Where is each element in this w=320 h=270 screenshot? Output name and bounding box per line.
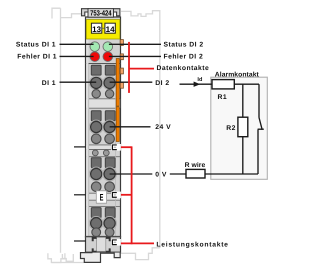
E marker box bbox=[96, 191, 106, 203]
data contact tab 3 bbox=[120, 68, 123, 74]
level 4 actuation squares bbox=[91, 208, 101, 218]
resistor R1 bbox=[212, 80, 234, 89]
data contact tab 2 bbox=[120, 54, 123, 60]
level 2 actuation squares bbox=[91, 111, 101, 121]
svg-text:Status DI 1: Status DI 1 bbox=[16, 42, 56, 49]
foot right hook bbox=[114, 253, 120, 258]
background silhouette: bottom-left foot 2 bbox=[62, 254, 73, 261]
wire 24V bbox=[110, 126, 151, 128]
orange strip divider mark bbox=[116, 105, 120, 107]
svg-text:13: 13 bbox=[92, 25, 101, 34]
switch bottom wire bbox=[257, 130, 259, 175]
wire 0V to R wire bbox=[170, 173, 186, 175]
wire fehler DI2 bbox=[109, 55, 161, 57]
wire R2 bottom bbox=[242, 137, 244, 174]
level 3 clamp circles bbox=[89, 167, 103, 181]
svg-text:Datenkontakte: Datenkontakte bbox=[157, 65, 210, 72]
wire 0V bbox=[110, 173, 153, 175]
red bracket datenkontakte bbox=[128, 42, 130, 93]
svg-text:E: E bbox=[100, 193, 104, 204]
switch contact tick bbox=[258, 128, 264, 130]
terminal number box 14 bbox=[105, 23, 115, 33]
svg-text:Status DI 2: Status DI 2 bbox=[164, 42, 204, 49]
bottom rail bbox=[205, 173, 258, 175]
background silhouette: top-right neighbour bbox=[121, 11, 160, 248]
green LED status DI1 bbox=[90, 42, 100, 52]
wire Id with arrow bbox=[180, 83, 213, 85]
wire junction to R2 bbox=[242, 84, 244, 117]
level 2 clamp circles bbox=[89, 120, 103, 134]
resistor R wire bbox=[186, 169, 205, 178]
svg-text:Alarmkontakt: Alarmkontakt bbox=[215, 71, 260, 78]
svg-text:DI 1: DI 1 bbox=[42, 80, 56, 87]
svg-text:R1: R1 bbox=[218, 94, 228, 101]
power jumper icon 1 bbox=[111, 144, 121, 151]
switch blade bbox=[259, 118, 262, 130]
left power jumper tick 2 bbox=[74, 194, 86, 196]
wire R1 to switch branch bbox=[234, 83, 259, 85]
wire status DI1 bbox=[60, 43, 94, 45]
alarm circuit enclosure bbox=[211, 77, 267, 179]
svg-text:Fehler DI 1: Fehler DI 1 bbox=[17, 54, 57, 61]
background silhouette: top-left neighbour modules bbox=[52, 8, 81, 18]
level 3 lower circles bbox=[91, 182, 101, 192]
green LED status DI2 bbox=[103, 42, 113, 52]
power jumper icon 3 bbox=[111, 239, 121, 246]
svg-text:R2: R2 bbox=[226, 125, 236, 132]
data contact tab 1 bbox=[120, 40, 123, 46]
wire DI1 bbox=[60, 81, 97, 83]
terminal number box 13 bbox=[91, 23, 101, 33]
module label box 753-424 bbox=[88, 9, 114, 18]
module top-right ear bbox=[113, 9, 120, 16]
foot left boot hook bbox=[81, 253, 101, 263]
foot clamp bars bbox=[92, 237, 97, 241]
background silhouette: left neighbour vertical edge bbox=[60, 8, 62, 253]
orange side strip bbox=[116, 59, 119, 142]
data contact tab 4 bbox=[120, 82, 123, 88]
switch top wire bbox=[258, 84, 260, 117]
foot small bar right bbox=[101, 252, 115, 254]
left power jumper tick 1 bbox=[74, 146, 86, 148]
svg-text:Id: Id bbox=[197, 76, 203, 83]
small latch circles bbox=[92, 150, 98, 156]
level 4 lower circles bbox=[92, 228, 101, 237]
svg-text:753-424: 753-424 bbox=[90, 8, 112, 17]
wire status DI2 bbox=[109, 43, 161, 45]
level 1 actuation squares bbox=[91, 65, 101, 75]
resistor R2 bbox=[238, 117, 248, 137]
svg-text:0 V: 0 V bbox=[155, 171, 167, 178]
divider band 1 bbox=[86, 99, 120, 108]
divider band 3 bbox=[86, 193, 120, 200]
red LED fehler DI2 bbox=[103, 52, 113, 62]
inner left wall line bbox=[88, 64, 90, 237]
red bracket leistungskontakte bbox=[131, 146, 133, 244]
module body bbox=[86, 17, 121, 237]
svg-text:Leistungskontakte: Leistungskontakte bbox=[156, 241, 228, 248]
connector nub between 13 and 14 bbox=[102, 27, 105, 29]
level 1 lower circles bbox=[92, 90, 100, 98]
background silhouette: bottom-left foot 1 bbox=[48, 253, 65, 262]
divider band 2 bbox=[86, 145, 120, 150]
module top-left ear bbox=[82, 9, 89, 16]
module foot: body extension to y252 bbox=[86, 237, 121, 253]
level 4 clamp circles bbox=[89, 216, 103, 230]
level 3 actuation squares bbox=[91, 158, 101, 168]
svg-text:Fehler DI 2: Fehler DI 2 bbox=[164, 54, 204, 61]
svg-text:24 V: 24 V bbox=[155, 124, 171, 131]
foot central panel bbox=[97, 237, 106, 251]
svg-text:14: 14 bbox=[106, 25, 115, 34]
power jumper icon 2 bbox=[111, 192, 121, 199]
red LED fehler DI1 bbox=[90, 52, 100, 62]
level 1 clamp circles bbox=[89, 76, 103, 90]
wire DI2 bbox=[110, 81, 153, 83]
level 2 lower circles bbox=[91, 134, 101, 144]
inner left wall highlight bbox=[86, 40, 88, 237]
yellow label band bbox=[86, 20, 120, 40]
wire fehler DI1 bbox=[60, 55, 94, 57]
svg-text:R wire: R wire bbox=[185, 162, 206, 169]
left power jumper tick 3 bbox=[74, 240, 86, 242]
svg-text:DI 2: DI 2 bbox=[155, 80, 169, 87]
divider line below LED zone bbox=[86, 63, 121, 65]
background silhouette: bottom-right steps bbox=[120, 248, 160, 260]
background silhouette: bottom rail line bbox=[51, 262, 84, 264]
inner right wall line bbox=[115, 64, 117, 237]
